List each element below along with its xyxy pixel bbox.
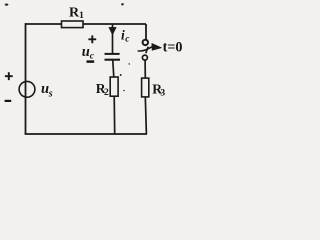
svg-text:3: 3 [160,89,165,99]
wire capacitor to R2 [113,60,114,78]
switch S closing arrow [138,43,162,51]
resistor R3 [142,78,166,99]
minus sign of source [5,100,12,102]
switch S top contact [143,40,148,45]
minus sign of uc [87,60,95,63]
label t=0 [163,40,183,56]
svg-text:t=0: t=0 [163,40,183,56]
switch S bottom contact [142,55,147,60]
speck left of R2 top [120,74,122,76]
speck top middle [121,3,124,5]
wire bottom bus [25,133,147,135]
label u_c [82,44,95,61]
svg-text:u: u [82,44,90,60]
speck top left [5,4,9,6]
plus sign of source [5,72,13,80]
wire switch to R3 [144,60,146,79]
label u_s [41,81,53,100]
svg-text:2: 2 [104,88,109,98]
voltage source Us [19,81,35,97]
svg-text:s: s [48,89,53,100]
svg-text:1: 1 [79,10,84,21]
wire top bus [26,23,147,25]
current arrow i_c [109,24,116,54]
wire top bus to switch [145,24,147,40]
capacitor C plates [105,54,121,60]
wire left branch [25,23,27,134]
plus sign of uc [88,35,96,43]
speck near capacitor [128,63,130,65]
speck right of R2 [123,90,125,92]
wire R2 to bottom bus [113,96,116,134]
resistor R1 [62,6,85,28]
resistor R2 [96,77,118,98]
label i_c [121,27,130,44]
switch S blade [146,47,148,54]
wire R3 to bottom bus [145,97,146,134]
